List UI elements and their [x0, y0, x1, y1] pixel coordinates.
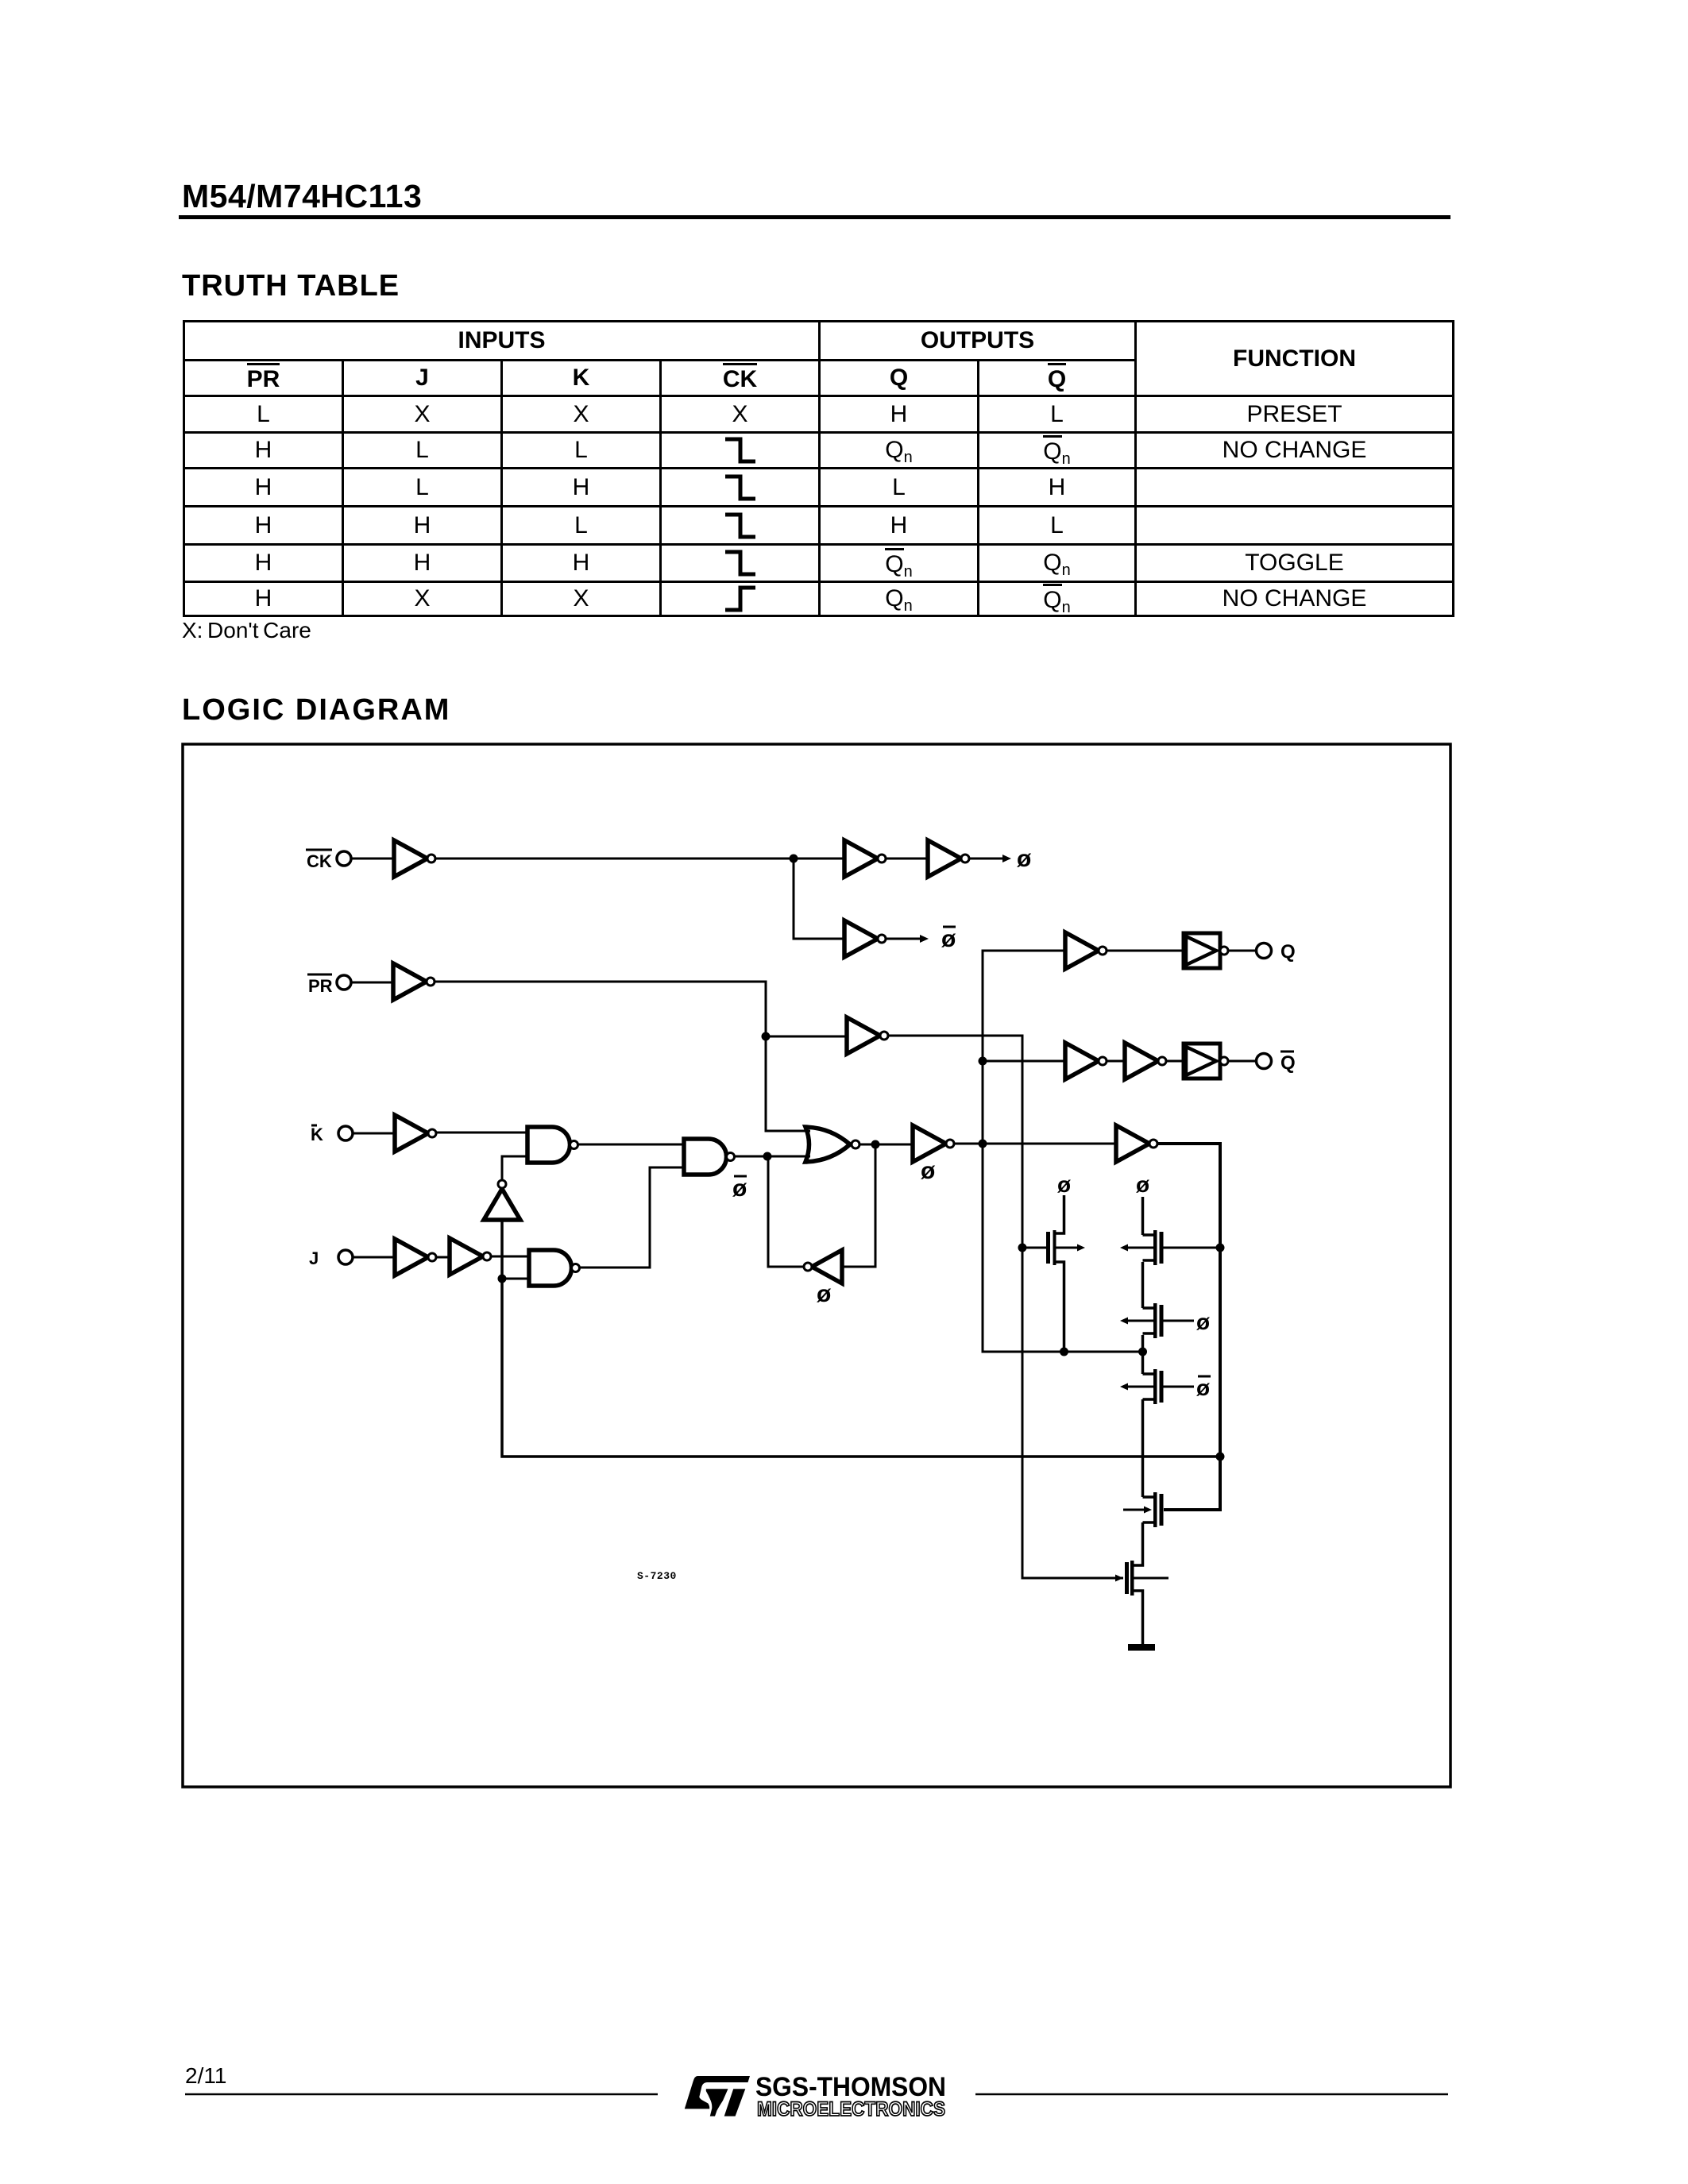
svg-text:ø: ø	[817, 1281, 832, 1307]
section heading TRUTH TABLE	[182, 269, 400, 303]
wire node CKi down to U8	[794, 859, 844, 939]
svg-text:ø: ø	[1196, 1310, 1210, 1334]
junction node chain/bottom-run join	[1138, 1348, 1147, 1356]
arrow phi output	[1002, 855, 1011, 862]
section heading LOGIC DIAGRAM	[182, 693, 450, 727]
arrow phi-bar output	[920, 935, 929, 943]
wire U16 input to G4 output node	[842, 1144, 875, 1267]
input terminal J	[338, 1250, 353, 1264]
phi-bar output label	[941, 926, 956, 952]
junction node G4 output	[871, 1140, 880, 1149]
ground	[1128, 1644, 1155, 1651]
junction node Q-bar branch	[979, 1057, 987, 1066]
inverter U2 (PR input)	[393, 963, 435, 1000]
wire G3 output up to G2 bottom input	[579, 1167, 684, 1268]
wire K terminal to U3	[353, 1133, 395, 1135]
wire master node: Q row, long vertical, bottom run	[983, 951, 1143, 1352]
junction node Q1 source join	[1060, 1348, 1068, 1356]
wire G1 output to G2 top input	[577, 1144, 684, 1146]
wire U8 output to phi-bar arrow	[886, 938, 920, 940]
junction node Q1 gate tap	[1018, 1244, 1027, 1252]
wire CK terminal to U1	[351, 858, 394, 860]
svg-text:ø: ø	[941, 926, 956, 952]
wire G4 output to U10	[860, 1144, 913, 1146]
svg-text:S-7230: S-7230	[637, 1570, 677, 1582]
wire U3 output to G1 top input	[436, 1132, 528, 1134]
transistor Q5 (gate from phi transmission rail)	[1123, 1399, 1164, 1527]
input terminal CK	[337, 851, 351, 866]
wire feedback vertical and bottom run to T2 gate net	[502, 1220, 1220, 1457]
wire U1 output to U6 (node CKi)	[436, 858, 844, 860]
transistor Q6 (bottom, gate from preset rail)	[1115, 1522, 1168, 1644]
svg-text:ø: ø	[1017, 846, 1032, 872]
junction node feedback/G3	[498, 1275, 507, 1283]
wire J terminal to U4	[353, 1256, 395, 1259]
wire U2 output right and down to G4 top input	[435, 982, 810, 1131]
wire preset node to U9	[766, 1036, 847, 1038]
junction node preset branch	[762, 1032, 771, 1041]
wire U10 output to U11	[954, 1143, 1116, 1145]
input K label	[311, 1125, 323, 1144]
input terminal K	[338, 1126, 353, 1140]
inverter U9 (preset distribution)	[847, 1017, 888, 1054]
transistor Q2 (top of right stack, phi drain)	[1120, 1197, 1220, 1265]
inverter U7 (clock buffer 2, phi output)	[928, 840, 969, 877]
inverter U16 (latch feedback, left-pointing)	[804, 1250, 842, 1283]
wire U6 to U7	[886, 858, 928, 860]
wire U14 to B2	[1166, 1060, 1184, 1063]
svg-text:ø: ø	[921, 1158, 936, 1184]
inverter U5 (J input second)	[450, 1238, 491, 1275]
footer left rule	[185, 2093, 658, 2096]
wire U9 output right, down to T6 gate	[888, 1036, 1123, 1578]
svg-text:CK: CK	[307, 851, 332, 871]
wire B2 output to Q-bar terminal	[1228, 1060, 1257, 1063]
inverter U14 (Q-bar output stage 2)	[1125, 1043, 1166, 1079]
buffer B1 (Q output driver)	[1184, 933, 1228, 968]
svg-text:ø: ø	[1136, 1172, 1149, 1197]
svg-text:PR: PR	[308, 976, 333, 996]
inverter U1 (CK input)	[394, 840, 435, 877]
wire U7 output to phi arrow	[969, 858, 1002, 860]
label phi-bar at Q4 gate	[1196, 1376, 1211, 1400]
inverter U6 (clock buffer 1)	[844, 840, 886, 877]
logic diagram frame	[183, 744, 1450, 1787]
footer right rule	[975, 2093, 1448, 2096]
label phi-bar at G2 output	[732, 1175, 747, 1202]
output terminal Q-bar	[1257, 1054, 1272, 1069]
transistor Q4 (gate phi-bar)	[1120, 1335, 1194, 1404]
output terminal Q	[1257, 943, 1272, 959]
wire feedback node to G3 bottom input	[502, 1278, 529, 1280]
inverter U4 (J input first)	[395, 1239, 436, 1275]
wire U4 to U5	[436, 1256, 450, 1259]
input terminal PR	[337, 975, 351, 990]
svg-text:J: J	[309, 1248, 319, 1268]
junction node latch A	[763, 1152, 772, 1161]
junction node CKi	[790, 855, 798, 863]
inverter U11 (phi transmission 2)	[1116, 1125, 1157, 1162]
wire node to U13 (Q-bar row)	[983, 1060, 1065, 1063]
junction node Q2 gate tap	[1216, 1244, 1225, 1252]
output Q-bar label	[1280, 1051, 1296, 1074]
svg-text:Q: Q	[1280, 941, 1296, 963]
wire G2 output to G4 bottom input	[734, 1156, 810, 1158]
junction node feedback/phi2 join	[1216, 1453, 1225, 1461]
wire PR terminal to U2	[351, 982, 393, 984]
inverter U15 (feedback, up-pointing)	[484, 1180, 520, 1220]
NAND gate G3 (J path)	[529, 1250, 580, 1286]
junction node phi mid	[979, 1140, 987, 1148]
page number	[185, 2063, 226, 2089]
inverter U12 (Q output stage)	[1065, 932, 1107, 969]
inverter U13 (Q-bar output stage 1)	[1065, 1043, 1107, 1079]
wire U12 output to B1	[1107, 950, 1184, 952]
svg-text:Q: Q	[1280, 1052, 1296, 1074]
NOR gate G4 (preset/latch)	[805, 1127, 859, 1162]
page header title	[182, 178, 422, 215]
truth table	[183, 320, 1454, 617]
inverter U8 (phi-bar output)	[844, 920, 886, 957]
svg-text:ø: ø	[1196, 1376, 1210, 1400]
buffer B2 (Q-bar output driver)	[1184, 1044, 1228, 1078]
inverter U3 (K input)	[395, 1115, 436, 1152]
svg-text:ø: ø	[732, 1175, 747, 1202]
wire latch node down to U16 output	[768, 1156, 804, 1267]
wire U13 to U14	[1107, 1060, 1125, 1063]
NAND gate G1 (K path)	[527, 1127, 578, 1163]
transistor Q3 (gate phi-prime)	[1120, 1262, 1194, 1338]
input CK label	[306, 850, 332, 871]
svg-text:ø: ø	[1057, 1172, 1071, 1197]
wire G1 bottom input to U15 bubble	[502, 1156, 528, 1181]
wire U11 output right and down to T5 gate	[1157, 1144, 1220, 1510]
transistor Q1 (left, gate from preset rail)	[1022, 1195, 1085, 1352]
svg-text:K: K	[311, 1125, 323, 1144]
SGS-THOMSON ST logo mark	[685, 2076, 750, 2116]
input PR label	[307, 974, 333, 996]
inverter U10 (phi transmission 1)	[913, 1125, 954, 1162]
wire B1 output to Q terminal	[1228, 950, 1257, 952]
svg-text:MICROELECTRONICS: MICROELECTRONICS	[757, 2098, 945, 2120]
wire U5 output to G3 top input	[491, 1256, 529, 1258]
NAND gate G2 (middle)	[684, 1139, 735, 1175]
